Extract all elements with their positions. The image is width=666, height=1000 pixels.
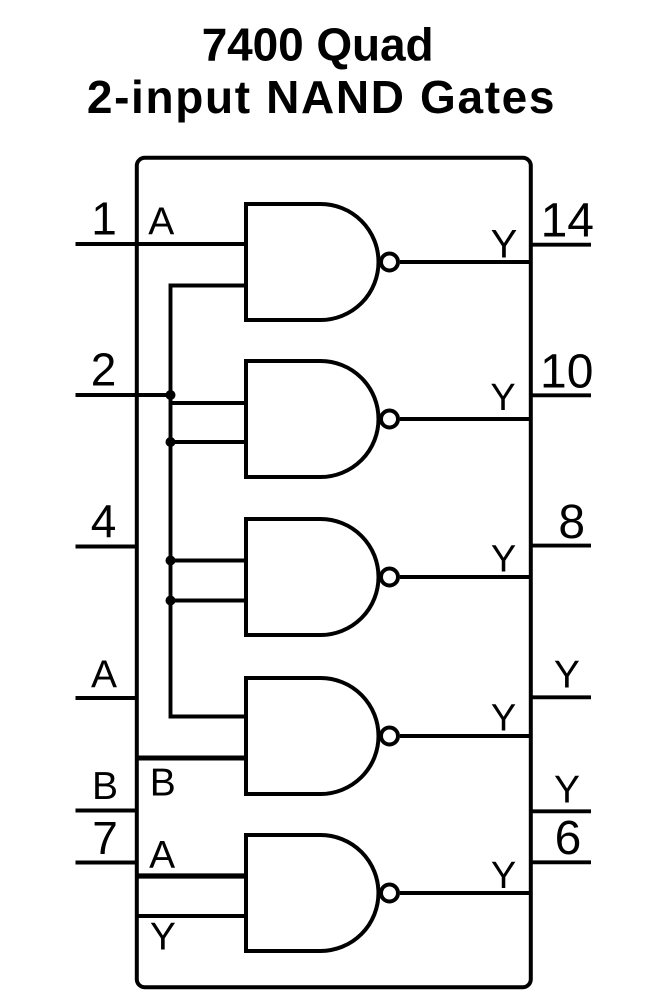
svg-text:10: 10 [540, 345, 593, 398]
wire pin 6 stub [531, 860, 591, 864]
wire pin 2 stub to bus [76, 393, 171, 397]
NAND gate G3 [246, 519, 398, 635]
svg-text:Y: Y [150, 916, 176, 959]
wire G5 input A from body edge [137, 873, 246, 878]
NAND gate G1 [246, 204, 398, 320]
wire G3 output [400, 575, 531, 579]
wire bus to G2 input 1 [171, 401, 247, 405]
junction bus / G3 input 2 [166, 596, 176, 606]
svg-text:6: 6 [555, 812, 582, 865]
wire pin B stub [76, 809, 137, 813]
svg-text:2-input NAND Gates: 2-input NAND Gates [87, 71, 556, 123]
svg-text:1: 1 [91, 193, 117, 245]
svg-text:A: A [91, 654, 117, 697]
svg-text:Y: Y [491, 222, 518, 266]
wire internal bus: G1 input B down to G4 input 1 [171, 286, 247, 717]
wire bus to G2 input 2 [171, 440, 247, 444]
svg-text:4: 4 [91, 495, 117, 547]
wire bus to G3 input 2 [171, 599, 247, 603]
svg-text:Y: Y [491, 538, 516, 580]
junction bus / G2 input 2 [166, 437, 176, 447]
wire G5 input Y from body edge [137, 914, 246, 918]
svg-text:A: A [149, 834, 175, 877]
wire bus to G3 input 1 [171, 559, 247, 563]
svg-text:Y: Y [554, 769, 580, 812]
junction bus / pin 2 [166, 390, 176, 400]
wire pin Y stub upper right [531, 695, 591, 699]
svg-text:A: A [148, 200, 174, 243]
wire G4 input B from body edge [137, 756, 246, 761]
svg-text:7400 Quad: 7400 Quad [202, 18, 434, 70]
svg-text:B: B [92, 765, 118, 808]
wire G5 output [400, 891, 531, 895]
wire pin 10 stub [531, 393, 591, 397]
NAND gate G5 [246, 835, 398, 951]
wire G4 output [400, 734, 531, 738]
wire G2 output [400, 417, 531, 421]
svg-text:Y: Y [491, 698, 516, 740]
wire G1 output to pin 14 side [400, 260, 531, 264]
wire pin 8 stub [531, 544, 591, 548]
wire pin 1 to G1 input A [76, 242, 247, 246]
svg-text:7: 7 [92, 812, 118, 864]
IC body U1 [137, 158, 531, 987]
wire pin Y stub lower right [531, 809, 591, 813]
svg-text:Y: Y [554, 654, 580, 697]
svg-text:14: 14 [541, 194, 594, 247]
svg-text:8: 8 [558, 496, 585, 549]
wire pin A stub [76, 696, 137, 700]
svg-text:Y: Y [490, 377, 515, 419]
svg-text:B: B [150, 761, 176, 804]
svg-text:Y: Y [491, 855, 516, 897]
junction bus / G3 input 1 [166, 556, 176, 566]
wire pin 4 stub [76, 545, 137, 549]
wire pin 7 stub [76, 861, 137, 865]
NAND gate G2 [246, 361, 398, 477]
svg-text:2: 2 [91, 344, 117, 396]
NAND gate G4 [246, 678, 398, 794]
wire pin 14 stub [531, 243, 591, 247]
